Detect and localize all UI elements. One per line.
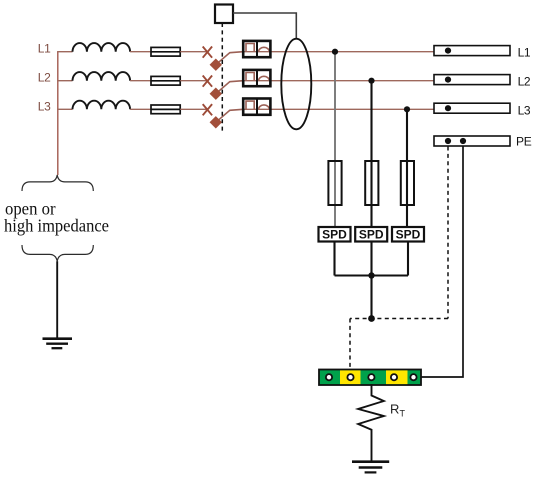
svg-text:L1: L1 xyxy=(518,46,531,60)
svg-text:L3: L3 xyxy=(38,99,51,113)
svg-text:L3: L3 xyxy=(518,103,531,117)
svg-text:SPD: SPD xyxy=(359,228,384,242)
svg-text:high impedance: high impedance xyxy=(4,216,109,236)
svg-text:PE: PE xyxy=(516,135,532,149)
svg-text:L2: L2 xyxy=(38,71,51,85)
svg-text:T: T xyxy=(400,409,406,419)
svg-text:R: R xyxy=(390,402,399,417)
svg-text:L2: L2 xyxy=(518,75,531,89)
svg-text:L1: L1 xyxy=(38,42,51,56)
svg-text:SPD: SPD xyxy=(322,228,347,242)
svg-text:SPD: SPD xyxy=(396,228,421,242)
